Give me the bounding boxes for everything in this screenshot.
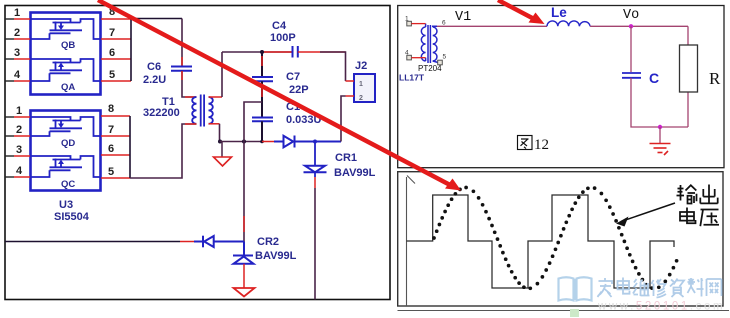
diode CR1 element a (274, 136, 341, 148)
svg-text:CR1: CR1 (335, 152, 357, 164)
svg-text:3: 3 (16, 144, 22, 156)
pin 7 wire (pkg B) (101, 135, 130, 137)
svg-text:7: 7 (109, 27, 115, 39)
PT204 pin1 box (407, 21, 412, 26)
pin 5 wire (pkg B) (101, 177, 130, 179)
IC U3 package B outline (31, 111, 101, 191)
wire C1 bottom lead (261, 121, 263, 141)
svg-text:V1: V1 (455, 10, 471, 25)
resistor R (680, 45, 698, 92)
svg-text:LL17T: LL17T (399, 73, 425, 83)
pin 5 wire (101, 80, 131, 82)
wire V1 to Le (437, 25, 547, 27)
svg-text:12: 12 (534, 137, 549, 153)
svg-text:6: 6 (108, 143, 114, 155)
transformer T1 (192, 95, 213, 127)
long wire to CR2 (5, 241, 180, 243)
svg-text:QB: QB (61, 40, 75, 51)
pin 2 wire (5, 38, 14, 40)
pin 3 wire (5, 58, 14, 60)
wire C6 bottom lead to T1 (182, 71, 197, 97)
svg-text:1: 1 (16, 105, 22, 117)
node Vo (629, 24, 633, 28)
red annotation arrow B (to Le) (498, 0, 536, 20)
svg-text:5: 5 (109, 69, 115, 81)
label 输出 (output) (677, 185, 697, 204)
svg-text:QC: QC (61, 179, 75, 190)
svg-text:4: 4 (405, 50, 409, 57)
red annotation arrow A (to waveform peak) (98, 0, 452, 186)
transistor QB (31, 19, 101, 39)
wire Le to Vo (590, 25, 688, 27)
svg-text:U3: U3 (59, 199, 73, 211)
bus joining pins 8-5 (pkg B) (129, 116, 131, 178)
svg-text:C6: C6 (147, 61, 161, 73)
svg-text:Le: Le (551, 5, 567, 20)
waveform panel extra bottom line (398, 310, 730, 312)
svg-text:2: 2 (359, 95, 363, 102)
capacitor C (622, 73, 641, 78)
waveform panel frame (398, 172, 723, 306)
inductor Le (547, 21, 590, 26)
svg-text:J2: J2 (355, 60, 367, 72)
PT204 pin5 box (438, 60, 443, 65)
wire J2 pin2 return (341, 96, 346, 142)
capacitor C4 (293, 46, 298, 58)
capacitor C1 (252, 118, 273, 122)
svg-text:5: 5 (108, 166, 114, 178)
J2 pin2 stub (346, 95, 355, 97)
pin 2 wire (pkg B) (5, 135, 14, 137)
pin 8 wire (101, 18, 131, 20)
figure caption 图12 (518, 136, 533, 150)
wire C4 to J2 corner (298, 51, 346, 53)
pin 1 wire (pkg B) (5, 116, 14, 118)
svg-text:4: 4 (14, 69, 21, 81)
diode CR1 element b (to bottom rail) (314, 142, 316, 166)
transistor QC (31, 156, 101, 177)
ground GND2 (234, 288, 255, 297)
bus joining pins 8-5 (130, 19, 132, 81)
C7/C1 string top lead (261, 52, 263, 76)
annotation arrow to output voltage label (621, 203, 675, 222)
resistor R leads (687, 26, 689, 45)
node CR1 junction (313, 140, 317, 144)
svg-text:C: C (649, 70, 659, 86)
svg-text:R: R (709, 69, 721, 88)
svg-text:2: 2 (16, 124, 22, 136)
J2 pin1 stub (346, 80, 355, 82)
pin 4 wire (pkg B) (5, 176, 14, 178)
pin 6 wire (101, 58, 131, 60)
wire pkg B row5 to T1 bottom-left (130, 124, 197, 178)
svg-text:100P: 100P (270, 32, 296, 44)
pin 8 wire (pkg B) (101, 115, 130, 117)
node ground tap (658, 125, 662, 129)
capacitor C6 (171, 67, 192, 71)
svg-text:322200: 322200 (143, 107, 180, 119)
svg-text:3: 3 (14, 47, 20, 59)
diode CR2 element a (194, 236, 244, 256)
ground GND1 (221, 142, 223, 158)
svg-text:C7: C7 (286, 71, 300, 83)
watermark book icon (559, 277, 592, 300)
wire C7 bottom to C1 top (261, 81, 263, 117)
wire ground node to diode CR1a (262, 141, 274, 143)
svg-text:7: 7 (108, 124, 114, 136)
wire ground node to C1 bottom (220, 141, 263, 143)
svg-text:1: 1 (405, 16, 409, 23)
svg-text:2: 2 (14, 27, 20, 39)
node T1 ground junction (218, 140, 222, 144)
capacitor C lead top (630, 26, 632, 72)
svg-text:8: 8 (108, 103, 114, 115)
transistor QA (31, 59, 101, 81)
diode CR2 element b (233, 256, 254, 264)
svg-text:QD: QD (61, 138, 75, 149)
svg-text:www.520101.com: www.520101.com (597, 301, 725, 313)
svg-text:C4: C4 (272, 20, 287, 32)
J2 connector box (354, 74, 375, 102)
transistor QD (31, 117, 101, 136)
pin 6 wire (pkg B) (101, 154, 130, 156)
capacitor C lead bottom (631, 78, 688, 127)
svg-text:22P: 22P (289, 84, 309, 96)
filter panel frame (398, 6, 724, 168)
wire C6 top lead (181, 19, 183, 67)
svg-text:QA: QA (61, 82, 75, 93)
watermark icon base (570, 309, 579, 317)
mid-tap wire to vertical (244, 102, 262, 242)
dotted sine output voltage curve (432, 186, 678, 291)
PT204 pin4 box (407, 55, 412, 60)
label 电压 (voltage) (680, 208, 696, 224)
pin 7 wire (101, 38, 131, 40)
wire pkg A bus to C6 (131, 18, 182, 20)
node at mid-tap vertical crossing (242, 140, 246, 144)
axis corner tick (407, 176, 415, 184)
svg-text:2.2U: 2.2U (143, 74, 166, 86)
pin 4 wire (5, 80, 14, 82)
left schematic panel frame (5, 6, 390, 300)
svg-text:5: 5 (443, 54, 447, 61)
svg-text:4: 4 (16, 165, 23, 177)
svg-text:1: 1 (359, 81, 363, 88)
svg-text:BAV99L: BAV99L (334, 167, 376, 179)
wire T1 secondary bottom to ground node (209, 123, 220, 125)
svg-text:CR2: CR2 (257, 236, 279, 248)
capacitor C7 (252, 77, 273, 81)
wire T1 secondary top to node (209, 96, 223, 98)
svg-text:Vo: Vo (623, 8, 639, 23)
watermark text 家电维修资料网 (598, 278, 722, 298)
pin 3 wire (pkg B) (5, 155, 14, 157)
svg-text:1: 1 (14, 7, 20, 19)
stepped inverter output waveform (407, 195, 675, 288)
waveform axis (406, 177, 408, 306)
svg-text:SI5504: SI5504 (54, 211, 90, 223)
ground GND3 (659, 127, 661, 143)
pin 1 wire (5, 18, 14, 20)
svg-text:6: 6 (442, 20, 446, 27)
transformer PT204 (421, 24, 437, 63)
wire top net y=52 (222, 51, 292, 53)
svg-text:6: 6 (109, 47, 115, 59)
svg-text:BAV99L: BAV99L (255, 250, 297, 262)
IC U3 package A outline (31, 13, 101, 95)
